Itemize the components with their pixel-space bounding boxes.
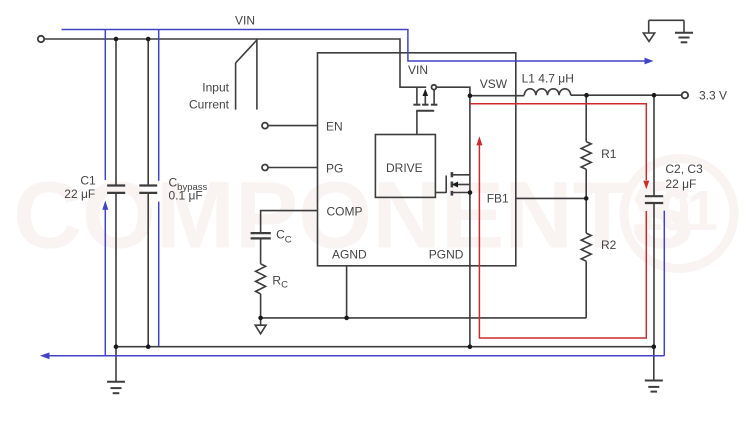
svg-text:22 μF: 22 μF [64,187,95,201]
svg-text:FB1: FB1 [487,192,509,206]
svg-text:AGND: AGND [332,247,367,261]
svg-text:3.3 V: 3.3 V [699,89,727,103]
svg-text:0.1 μF: 0.1 μF [169,189,203,203]
svg-text:22 μF: 22 μF [665,177,696,191]
svg-text:PG: PG [326,161,343,175]
svg-text:Current: Current [189,98,230,112]
svg-text:VIN: VIN [235,14,255,28]
svg-text:C1: C1 [80,173,96,187]
svg-text:COMP: COMP [327,204,363,218]
svg-text:PGND: PGND [429,247,464,261]
svg-text:Input: Input [202,81,229,95]
svg-text:R1: R1 [601,147,617,161]
svg-text:L1 4.7 μH: L1 4.7 μH [522,71,574,85]
svg-text:VSW: VSW [480,77,508,91]
svg-text:DRIVE: DRIVE [386,161,423,175]
svg-text:C2, C3: C2, C3 [665,162,703,176]
svg-text:EN: EN [326,119,343,133]
svg-text:VIN: VIN [408,63,428,77]
svg-text:RC: RC [272,274,288,291]
svg-text:R2: R2 [601,238,617,252]
